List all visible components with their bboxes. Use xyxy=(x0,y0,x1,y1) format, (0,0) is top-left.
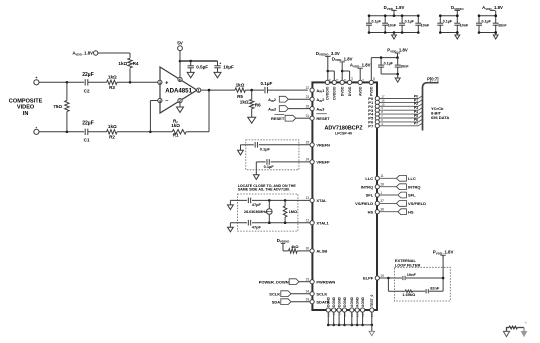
svg-text:1kΩ: 1kΩ xyxy=(118,61,127,66)
svg-text:37: 37 xyxy=(380,199,384,203)
svg-text:VIDEO: VIDEO xyxy=(17,105,35,111)
svg-text:1kΩ: 1kΩ xyxy=(236,82,245,87)
svg-text:DGND: DGND xyxy=(337,296,341,307)
svg-text:LLC: LLC xyxy=(365,176,373,181)
svg-text:PVDD: PVDD xyxy=(370,86,374,96)
svg-text:1: 1 xyxy=(198,89,200,93)
svg-text:DGND: DGND xyxy=(327,296,331,307)
svg-text:TEST_0: TEST_0 xyxy=(370,294,374,307)
svg-text:656 DATA: 656 DATA xyxy=(431,115,449,120)
svg-text:1kΩ: 1kΩ xyxy=(108,75,117,80)
svg-text:HS: HS xyxy=(368,209,374,214)
svg-text:28: 28 xyxy=(380,183,384,187)
svg-text:10µF: 10µF xyxy=(223,65,234,70)
svg-text:0.1µF: 0.1µF xyxy=(443,19,453,23)
svg-text:22µF: 22µF xyxy=(82,120,94,126)
svg-text:AVDD: AVDD xyxy=(359,86,363,96)
svg-text:25: 25 xyxy=(306,141,310,145)
svg-text:INTRQ: INTRQ xyxy=(408,184,420,189)
svg-text:4kΩ: 4kΩ xyxy=(291,244,298,249)
svg-text:SFL: SFL xyxy=(366,193,374,198)
svg-text:0.1µF: 0.1µF xyxy=(384,61,394,65)
svg-text:33: 33 xyxy=(306,297,310,301)
svg-text:R2: R2 xyxy=(109,135,115,140)
svg-text:C1: C1 xyxy=(84,138,90,143)
svg-text:DVDDIO: DVDDIO xyxy=(326,86,330,100)
svg-text:1kΩ: 1kΩ xyxy=(171,123,180,128)
svg-text:0.5µF: 0.5µF xyxy=(196,65,208,70)
svg-text:R4: R4 xyxy=(133,61,139,66)
svg-text:R6: R6 xyxy=(255,102,261,107)
svg-text:1kΩ: 1kΩ xyxy=(240,99,249,104)
svg-text:1: 1 xyxy=(380,191,382,195)
svg-text:10nF: 10nF xyxy=(407,272,417,277)
svg-text:SDA: SDA xyxy=(272,300,281,305)
svg-text:PWRDWN: PWRDWN xyxy=(316,279,335,284)
svg-text:POWER_DOWN: POWER_DOWN xyxy=(259,280,289,285)
svg-text:+: + xyxy=(219,62,221,66)
svg-text:1kΩ: 1kΩ xyxy=(108,124,117,129)
svg-text:LOOP FILTER: LOOP FILTER xyxy=(395,262,421,267)
svg-text:2: 2 xyxy=(179,99,181,103)
svg-text:10nF: 10nF xyxy=(400,65,409,69)
svg-text:C2: C2 xyxy=(84,89,90,94)
svg-text:SFL: SFL xyxy=(408,193,416,198)
svg-text:RESET: RESET xyxy=(316,116,330,121)
svg-text:–: – xyxy=(165,98,168,104)
svg-text:DGND: DGND xyxy=(332,296,336,307)
svg-text:R5: R5 xyxy=(237,94,243,99)
svg-text:24: 24 xyxy=(306,158,310,162)
svg-text:ADA4851: ADA4851 xyxy=(165,87,192,94)
svg-text:28.63636MHz: 28.63636MHz xyxy=(244,210,267,214)
svg-text:75Ω: 75Ω xyxy=(53,104,62,109)
svg-text:22µF: 22µF xyxy=(82,72,94,78)
svg-text:DGND: DGND xyxy=(343,296,347,307)
svg-text:10nF: 10nF xyxy=(460,24,469,28)
svg-text:AGND: AGND xyxy=(356,296,360,307)
svg-text:82nF: 82nF xyxy=(430,286,440,291)
svg-text:0.1µF: 0.1µF xyxy=(264,164,275,169)
svg-text:AGND: AGND xyxy=(350,296,354,307)
svg-text:34: 34 xyxy=(306,289,310,293)
svg-text:LFCSP-40: LFCSP-40 xyxy=(335,132,352,136)
svg-text:1.69kΩ: 1.69kΩ xyxy=(402,292,415,297)
svg-text:0.1µF: 0.1µF xyxy=(405,19,415,23)
svg-text:DVDD: DVDD xyxy=(341,86,345,96)
svg-text:26: 26 xyxy=(306,104,310,108)
svg-text:4: 4 xyxy=(159,99,161,103)
svg-text:13: 13 xyxy=(306,196,310,200)
svg-text:5V: 5V xyxy=(177,41,184,46)
svg-text:40: 40 xyxy=(372,77,376,81)
svg-text:COMPOSITE: COMPOSITE xyxy=(9,99,43,105)
svg-text:XTAL: XTAL xyxy=(316,198,327,203)
svg-text:VREFN: VREFN xyxy=(316,143,330,148)
svg-text:SAME SIDE AS, THE ADV7180.: SAME SIDE AS, THE ADV7180. xyxy=(238,188,290,192)
svg-text:R3: R3 xyxy=(109,85,115,90)
svg-text:31: 31 xyxy=(306,114,310,118)
svg-text:INTRQ: INTRQ xyxy=(361,184,373,189)
svg-text:RESET: RESET xyxy=(271,116,285,121)
svg-text:15: 15 xyxy=(306,277,310,281)
svg-text:VS/FIELD: VS/FIELD xyxy=(408,201,426,206)
svg-text:DVDDIO: DVDDIO xyxy=(333,86,337,100)
svg-text:P7: P7 xyxy=(414,122,418,126)
svg-text:30: 30 xyxy=(306,247,310,251)
svg-text:11: 11 xyxy=(380,174,384,178)
svg-text:P7: P7 xyxy=(368,123,374,128)
svg-text:12: 12 xyxy=(306,218,310,222)
svg-text:P[0:7]: P[0:7] xyxy=(427,77,439,82)
svg-text:DVDD: DVDD xyxy=(348,86,352,96)
svg-text:IN: IN xyxy=(23,111,29,117)
svg-text:LLC: LLC xyxy=(408,176,416,181)
svg-text:1MΩ: 1MΩ xyxy=(289,209,298,214)
svg-text:AGND: AGND xyxy=(361,296,365,307)
svg-text:R1: R1 xyxy=(173,133,179,138)
svg-text:XTAL1: XTAL1 xyxy=(316,220,329,225)
svg-text:47pF: 47pF xyxy=(252,202,262,207)
svg-text:HS: HS xyxy=(408,209,414,214)
svg-text:23: 23 xyxy=(306,95,310,99)
svg-text:ALSB: ALSB xyxy=(316,249,327,254)
svg-text:19: 19 xyxy=(380,274,384,278)
svg-text:0.1µF: 0.1µF xyxy=(260,81,272,86)
svg-text:0.1µF: 0.1µF xyxy=(372,19,382,23)
svg-text:SCLK: SCLK xyxy=(316,291,327,296)
svg-text:VS/FIELD: VS/FIELD xyxy=(355,201,373,206)
svg-text:38: 38 xyxy=(380,208,384,212)
svg-text:VREFP: VREFP xyxy=(316,160,330,165)
svg-text:14: 14 xyxy=(350,77,354,81)
svg-text:0.1µF: 0.1µF xyxy=(482,19,492,23)
svg-text:0.1µF: 0.1µF xyxy=(260,147,271,152)
svg-text:47pF: 47pF xyxy=(252,224,262,229)
svg-text:10nF: 10nF xyxy=(388,24,397,28)
svg-text:10nF: 10nF xyxy=(421,24,430,28)
svg-text:SCLK: SCLK xyxy=(269,292,280,297)
svg-text:22: 22 xyxy=(306,86,310,90)
svg-text:10nF: 10nF xyxy=(498,24,507,28)
svg-text:3: 3 xyxy=(159,81,161,85)
svg-text:6: 6 xyxy=(179,78,181,82)
svg-text:ELPF: ELPF xyxy=(363,276,374,281)
